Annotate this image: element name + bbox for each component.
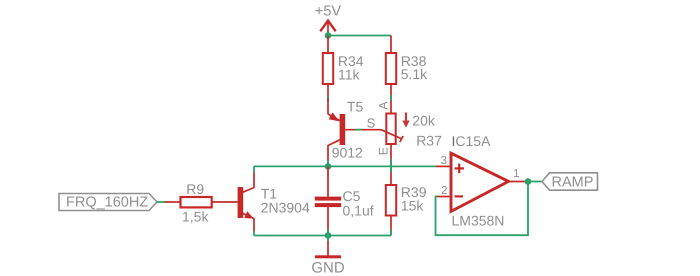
transistor T5 [328,98,381,166]
wire ground net [254,235,391,237]
junction dot ground net [325,232,332,239]
svg-text:2N3904: 2N3904 [261,200,310,216]
svg-text:5.1k: 5.1k [401,66,428,82]
transistor T1 [238,166,310,235]
resistor R34 [323,53,364,84]
wire (net tick) [327,96,329,102]
svg-text:FRQ_160HZ: FRQ_160HZ [66,194,148,210]
tag RAMP [542,173,598,191]
svg-text:2: 2 [441,185,447,197]
svg-text:S: S [367,116,376,131]
svg-text:RAMP: RAMP [552,175,594,191]
wire R39 bottom pin [390,216,392,236]
junction dot output [525,178,532,185]
svg-text:R37: R37 [416,132,442,148]
svg-text:0,1uf: 0,1uf [343,203,374,219]
svg-text:E: E [377,147,391,155]
svg-text:+5V: +5V [315,4,342,20]
svg-text:3: 3 [441,155,447,167]
potentiometer R37 [367,101,442,155]
wire (green crossing segment) [390,159,392,173]
junction dot main node [325,163,332,170]
wire tag to R9 [157,201,166,203]
svg-text:15k: 15k [401,198,425,214]
resistor R39 [386,184,427,216]
junction dot +5V node [325,32,332,39]
wire R38 bottom pin [390,84,392,114]
svg-text:1,5k: 1,5k [182,208,209,224]
wire main node net [254,165,436,167]
wire R37 E pin to R39 [390,144,392,185]
capacitor C5 [315,166,374,235]
svg-text:9012: 9012 [332,145,363,161]
wire feedback [436,182,529,236]
wire green +5V net [328,35,391,37]
tag FRQ_160HZ [59,194,157,211]
svg-text:A: A [377,101,391,110]
wire R9 to T1 base [213,201,238,203]
svg-text:LM358N: LM358N [452,213,505,229]
wire (net tick) [390,95,392,101]
svg-text:R9: R9 [186,181,204,197]
wire R38 top pin [390,36,392,54]
wire output to tag [528,181,542,183]
ground [311,236,345,276]
wire R34 bottom pin [327,84,329,99]
svg-text:11k: 11k [338,66,361,82]
svg-text:GND: GND [311,260,345,276]
svg-text:20k: 20k [412,113,436,129]
svg-text:T5: T5 [347,99,364,115]
power +5V [315,4,342,37]
resistor R9 [181,181,212,225]
svg-text:IC15A: IC15A [452,133,492,149]
wire (net tick) [390,230,392,236]
wire R34 top pin [327,36,329,54]
resistor R38 [386,53,428,84]
op-amp IC15A [436,133,526,229]
svg-text:1: 1 [513,168,519,180]
